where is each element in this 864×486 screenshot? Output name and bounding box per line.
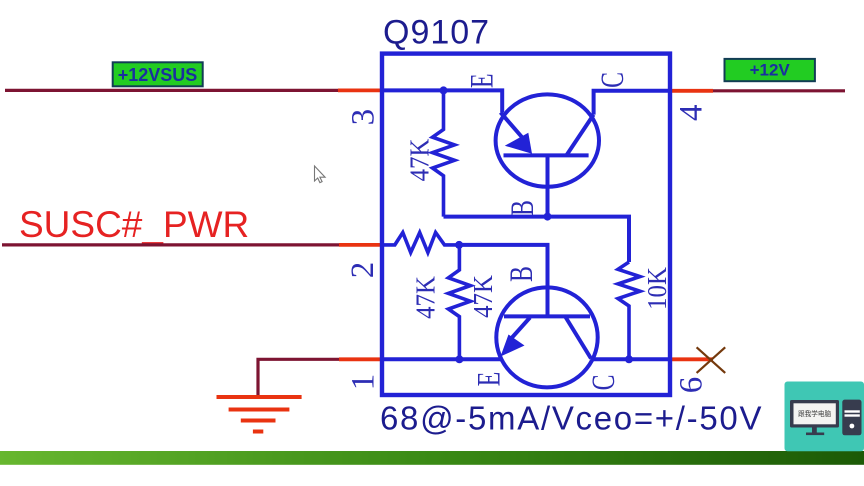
transistor Q2 (bottom PNP) [496,287,597,387]
mouse cursor [315,166,326,183]
resistor R1 47K top [433,90,455,216]
junction dot bottom/R4 [625,355,633,363]
power label +12VSUS [113,62,203,86]
no-connect X [697,347,726,373]
junction dot pin2/R3 [455,241,463,249]
svg-text:E: E [464,74,501,89]
wire pin6 red stub [670,357,713,361]
wire +12V rail maroon [713,89,845,92]
svg-text:6: 6 [674,377,710,394]
wire pin2 to base T2 [459,245,547,317]
svg-text:47K: 47K [411,276,441,319]
junction dot rail/R1 [440,86,448,94]
svg-text:C: C [585,375,622,391]
pc tower [842,400,861,436]
wire ground net red stub [339,357,383,361]
junction dot bottom/R3 [455,355,463,363]
wire top rail inside left [382,90,502,112]
monitor stand [812,428,817,433]
svg-text:1: 1 [346,374,382,391]
junction dot base node T1 [544,213,552,221]
emitter arrow Q1 [505,133,532,154]
wire ground net maroon [258,359,340,396]
transistor Q1 (top PNP) [496,94,599,216]
package box Q9107 [382,54,670,395]
svg-text:Q9107: Q9107 [383,13,490,51]
svg-text:B: B [503,266,540,282]
svg-text:4: 4 [674,105,710,122]
svg-text:+12V: +12V [750,61,791,80]
emitter arrow Q2 [501,335,525,357]
svg-text:2: 2 [345,262,381,279]
wire +12VSUS rail maroon [5,89,339,92]
svg-text:E: E [471,372,508,387]
resistor R3 47K vertical [448,245,470,359]
wire top rail inside right [594,91,670,115]
resistor R4 10K [618,262,640,359]
resistor R2 47K horizontal [383,233,459,253]
wire bottom rail inside right [591,357,670,361]
wire bottom rail inside left [382,357,502,361]
svg-text:47K: 47K [468,275,498,318]
wire +12V rail red stub [670,89,713,93]
svg-text:+12VSUS: +12VSUS [118,65,198,85]
wire SUSC#_PWR maroon [2,243,340,246]
ground [217,397,302,432]
power label +12V [725,59,815,81]
wire base node T1 [444,217,630,262]
svg-text:B: B [504,200,541,216]
svg-text:68@-5mA/Vceo=+/-50V: 68@-5mA/Vceo=+/-50V [380,400,763,437]
monitor frame [790,400,839,428]
svg-text:47K: 47K [405,138,435,181]
svg-text:SUSC#_PWR: SUSC#_PWR [19,204,249,245]
wire +12VSUS rail red stub [338,89,383,93]
svg-text:3: 3 [345,109,381,126]
wire SUSC#_PWR red stub [339,243,383,247]
svg-text:跟我学电脑: 跟我学电脑 [798,409,831,418]
svg-text:10K: 10K [642,267,672,310]
watermark logo panel [785,382,864,452]
svg-text:C: C [594,72,631,88]
